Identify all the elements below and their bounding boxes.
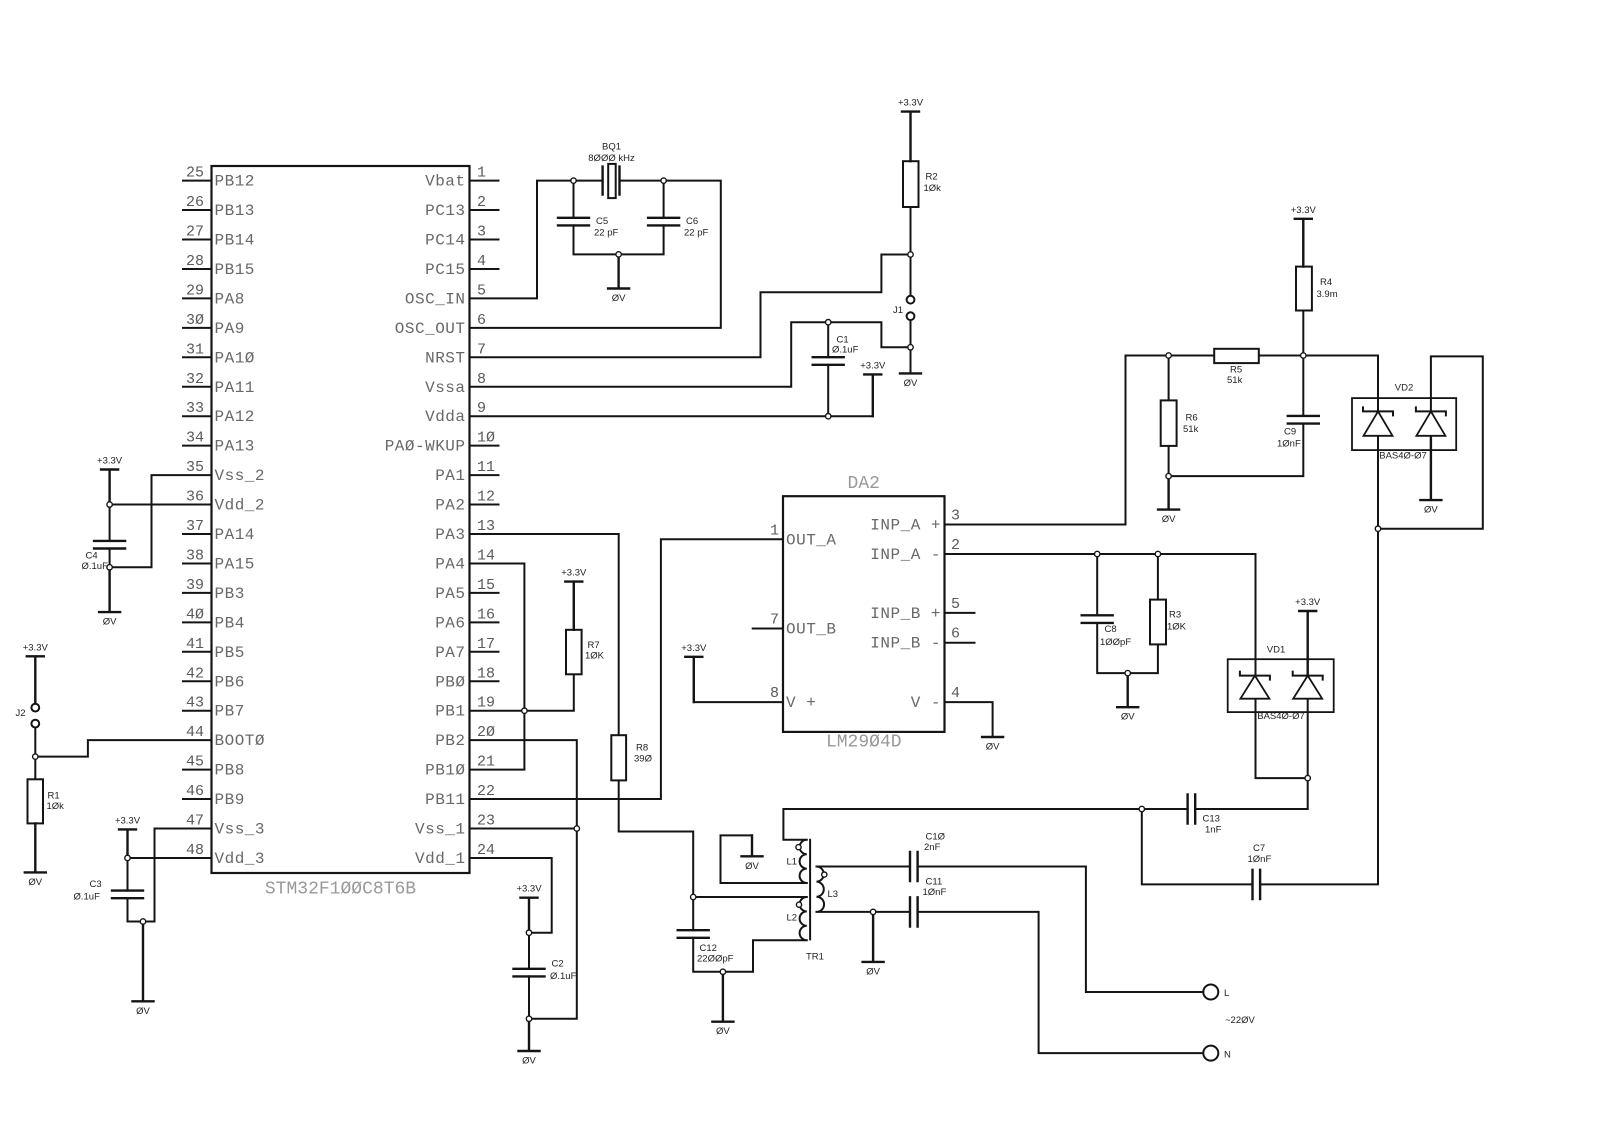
svg-text:INP_B -: INP_B - (870, 635, 941, 653)
svg-text:PA7: PA7 (435, 644, 465, 662)
svg-text:Vss_2: Vss_2 (215, 467, 266, 485)
svg-text:R6: R6 (1186, 413, 1198, 424)
svg-text:43: 43 (186, 695, 204, 712)
svg-text:PB9: PB9 (215, 791, 245, 809)
svg-text:INP_B +: INP_B + (870, 605, 941, 623)
svg-text:C6: C6 (686, 216, 698, 227)
svg-text:29: 29 (186, 282, 204, 299)
svg-text:INP_A -: INP_A - (870, 546, 941, 564)
svg-text:27: 27 (186, 224, 204, 241)
svg-text:22: 22 (477, 783, 495, 800)
svg-text:Ø.1uF: Ø.1uF (74, 892, 101, 903)
svg-text:BAS4Ø-Ø7: BAS4Ø-Ø7 (1379, 451, 1427, 462)
svg-text:2nF: 2nF (924, 842, 941, 853)
svg-text:ØV: ØV (103, 617, 117, 628)
svg-text:Vdd_3: Vdd_3 (215, 850, 266, 868)
svg-text:37: 37 (186, 518, 204, 535)
svg-text:C11: C11 (926, 877, 943, 888)
svg-text:1ØnF: 1ØnF (923, 887, 947, 898)
svg-text:PA1Ø: PA1Ø (215, 349, 255, 367)
svg-text:L2: L2 (787, 913, 798, 924)
svg-text:41: 41 (186, 636, 204, 653)
svg-text:2Ø: 2Ø (477, 724, 495, 741)
svg-text:19: 19 (477, 695, 495, 712)
svg-text:3: 3 (477, 224, 486, 241)
svg-text:LM29Ø4D: LM29Ø4D (826, 733, 902, 753)
svg-text:PB4: PB4 (215, 614, 245, 632)
svg-text:11: 11 (477, 459, 495, 476)
svg-text:OSC_IN: OSC_IN (405, 290, 466, 308)
svg-text:PB8: PB8 (215, 762, 245, 780)
svg-text:22ØØpF: 22ØØpF (697, 954, 734, 965)
svg-text:PB12: PB12 (215, 173, 255, 191)
svg-text:8ØØØ kHz: 8ØØØ kHz (588, 153, 635, 164)
svg-text:12: 12 (477, 489, 495, 506)
svg-text:INP_A +: INP_A + (870, 517, 941, 535)
svg-text:PB5: PB5 (215, 644, 245, 662)
svg-text:1ØnF: 1ØnF (1277, 439, 1301, 450)
svg-text:+3.3V: +3.3V (1295, 597, 1321, 608)
svg-text:28: 28 (186, 253, 204, 270)
svg-text:ØV: ØV (904, 378, 918, 389)
svg-text:ØV: ØV (1121, 712, 1135, 723)
svg-text:1: 1 (770, 522, 779, 539)
svg-text:39: 39 (186, 577, 204, 594)
svg-text:+3.3V: +3.3V (860, 360, 886, 371)
svg-text:+3.3V: +3.3V (681, 643, 707, 654)
svg-text:R3: R3 (1169, 610, 1181, 621)
svg-text:BQ1: BQ1 (602, 142, 621, 153)
svg-text:PBØ: PBØ (435, 673, 465, 691)
svg-text:22 pF: 22 pF (684, 228, 708, 239)
svg-text:25: 25 (186, 165, 204, 182)
svg-text:PB6: PB6 (215, 673, 245, 691)
svg-text:C12: C12 (700, 943, 717, 954)
svg-text:NRST: NRST (425, 349, 465, 367)
svg-text:5: 5 (951, 596, 960, 613)
svg-text:PA9: PA9 (215, 320, 245, 338)
svg-text:ØV: ØV (986, 742, 1000, 753)
svg-text:+3.3V: +3.3V (561, 568, 587, 579)
svg-text:VD1: VD1 (1267, 645, 1285, 656)
svg-text:4: 4 (477, 253, 486, 270)
svg-text:DA2: DA2 (848, 474, 880, 494)
svg-text:C1Ø: C1Ø (926, 832, 946, 843)
svg-text:PA4: PA4 (435, 555, 465, 573)
svg-text:4Ø: 4Ø (186, 606, 204, 623)
svg-text:18: 18 (477, 665, 495, 682)
svg-text:C2: C2 (552, 959, 564, 970)
svg-text:Ø.1uF: Ø.1uF (82, 561, 109, 572)
svg-text:1ØnF: 1ØnF (1248, 854, 1272, 865)
svg-text:8: 8 (477, 371, 486, 388)
svg-text:+3.3V: +3.3V (115, 815, 141, 826)
svg-text:Vbat: Vbat (425, 173, 465, 191)
svg-text:PC14: PC14 (425, 232, 465, 250)
svg-text:14: 14 (477, 547, 495, 564)
svg-text:+3.3V: +3.3V (898, 98, 924, 109)
svg-text:1nF: 1nF (1205, 825, 1222, 836)
svg-text:15: 15 (477, 577, 495, 594)
svg-text:13: 13 (477, 518, 495, 535)
svg-text:1Øk: 1Øk (47, 801, 65, 812)
svg-text:C13: C13 (1203, 814, 1220, 825)
svg-text:35: 35 (186, 459, 204, 476)
svg-text:51k: 51k (1227, 375, 1243, 386)
svg-text:TR1: TR1 (806, 952, 824, 963)
svg-text:R4: R4 (1320, 277, 1332, 288)
svg-text:PA14: PA14 (215, 526, 255, 544)
svg-text:C4: C4 (86, 551, 98, 562)
svg-text:1Ø: 1Ø (477, 430, 495, 447)
svg-text:J2: J2 (15, 708, 25, 719)
svg-text:3Ø: 3Ø (186, 312, 204, 329)
svg-text:PC13: PC13 (425, 202, 465, 220)
svg-text:PB15: PB15 (215, 261, 255, 279)
svg-text:R8: R8 (636, 743, 648, 754)
svg-text:Ø.1uF: Ø.1uF (832, 345, 859, 356)
svg-text:32: 32 (186, 371, 204, 388)
svg-text:R1: R1 (48, 791, 60, 802)
svg-text:PA2: PA2 (435, 497, 465, 515)
svg-text:16: 16 (477, 606, 495, 623)
svg-text:J1: J1 (893, 305, 903, 316)
svg-text:Vssa: Vssa (425, 379, 465, 397)
svg-text:+3.3V: +3.3V (23, 642, 49, 653)
svg-text:PB2: PB2 (435, 732, 465, 750)
svg-text:+3.3V: +3.3V (97, 456, 123, 467)
svg-text:ØV: ØV (28, 877, 42, 888)
svg-text:ØV: ØV (716, 1026, 730, 1037)
svg-text:C9: C9 (1284, 427, 1296, 438)
svg-text:36: 36 (186, 489, 204, 506)
svg-text:R7: R7 (588, 640, 600, 651)
svg-text:Vdd_2: Vdd_2 (215, 497, 266, 515)
svg-text:51k: 51k (1183, 424, 1199, 435)
svg-text:26: 26 (186, 194, 204, 211)
svg-text:BOOTØ: BOOTØ (215, 732, 266, 750)
svg-text:ØV: ØV (522, 1056, 536, 1067)
svg-text:1ØK: 1ØK (1167, 622, 1187, 633)
svg-text:46: 46 (186, 783, 204, 800)
svg-text:PB7: PB7 (215, 703, 245, 721)
svg-text:PA15: PA15 (215, 555, 255, 573)
svg-text:PAØ-WKUP: PAØ-WKUP (385, 438, 466, 456)
svg-text:39Ø: 39Ø (634, 754, 653, 765)
svg-text:STM32F1ØØC8T6B: STM32F1ØØC8T6B (265, 880, 416, 900)
svg-text:PB14: PB14 (215, 232, 255, 250)
svg-text:L1: L1 (787, 857, 798, 868)
svg-text:~22ØV: ~22ØV (1225, 1015, 1256, 1026)
svg-text:ØV: ØV (1162, 514, 1176, 525)
svg-text:C3: C3 (90, 879, 102, 890)
svg-text:Ø.1uF: Ø.1uF (550, 971, 577, 982)
svg-text:BAS4Ø-Ø7: BAS4Ø-Ø7 (1257, 711, 1305, 722)
svg-text:R5: R5 (1230, 365, 1242, 376)
svg-text:PB1: PB1 (435, 703, 465, 721)
svg-text:6: 6 (477, 312, 486, 329)
svg-text:VD2: VD2 (1395, 383, 1413, 394)
svg-text:ØV: ØV (866, 966, 880, 977)
svg-text:+3.3V: +3.3V (1291, 205, 1317, 216)
svg-text:PA1: PA1 (435, 467, 465, 485)
svg-text:47: 47 (186, 813, 204, 830)
svg-text:1ØØpF: 1ØØpF (1100, 637, 1131, 648)
svg-text:1ØK: 1ØK (585, 651, 605, 662)
svg-text:C5: C5 (596, 216, 608, 227)
svg-text:ØV: ØV (612, 293, 626, 304)
svg-text:7: 7 (477, 341, 486, 358)
svg-text:PB13: PB13 (215, 202, 255, 220)
svg-text:38: 38 (186, 547, 204, 564)
svg-text:PC15: PC15 (425, 261, 465, 279)
svg-text:V +: V + (786, 694, 816, 712)
svg-text:2: 2 (477, 194, 486, 211)
svg-text:Vss_1: Vss_1 (415, 821, 466, 839)
svg-text:PA13: PA13 (215, 438, 255, 456)
svg-text:3: 3 (951, 508, 960, 525)
svg-text:OUT_B: OUT_B (786, 621, 837, 639)
svg-text:33: 33 (186, 400, 204, 417)
svg-text:PA12: PA12 (215, 408, 255, 426)
svg-text:2: 2 (951, 537, 960, 554)
svg-text:ØV: ØV (745, 861, 759, 872)
svg-text:N: N (1224, 1050, 1231, 1061)
svg-text:6: 6 (951, 626, 960, 643)
svg-text:24: 24 (477, 842, 495, 859)
svg-text:PB1Ø: PB1Ø (425, 762, 465, 780)
svg-text:17: 17 (477, 636, 495, 653)
svg-text:PA11: PA11 (215, 379, 255, 397)
svg-text:R2: R2 (926, 172, 938, 183)
svg-text:PB11: PB11 (425, 791, 465, 809)
svg-text:V -: V - (911, 694, 941, 712)
svg-text:OUT_A: OUT_A (786, 532, 837, 550)
svg-text:PA8: PA8 (215, 290, 245, 308)
svg-text:1Øk: 1Øk (924, 183, 942, 194)
svg-text:ØV: ØV (1424, 505, 1438, 516)
svg-text:C7: C7 (1253, 843, 1265, 854)
svg-text:ØV: ØV (136, 1006, 150, 1017)
svg-text:Vss_3: Vss_3 (215, 821, 266, 839)
svg-text:+3.3V: +3.3V (516, 884, 542, 895)
svg-text:OSC_OUT: OSC_OUT (395, 320, 466, 338)
svg-text:42: 42 (186, 665, 204, 682)
svg-text:9: 9 (477, 400, 486, 417)
svg-text:1: 1 (477, 165, 486, 182)
svg-text:34: 34 (186, 430, 204, 447)
svg-text:L3: L3 (828, 889, 839, 900)
svg-text:C8: C8 (1105, 624, 1117, 635)
svg-text:Vdd_1: Vdd_1 (415, 850, 466, 868)
svg-text:23: 23 (477, 813, 495, 830)
svg-text:31: 31 (186, 341, 204, 358)
svg-text:Vdda: Vdda (425, 408, 465, 426)
svg-text:PA6: PA6 (435, 614, 465, 632)
svg-text:5: 5 (477, 282, 486, 299)
svg-text:8: 8 (770, 685, 779, 702)
svg-text:PA3: PA3 (435, 526, 465, 544)
svg-text:PA5: PA5 (435, 585, 465, 603)
svg-text:4: 4 (951, 685, 960, 702)
svg-text:45: 45 (186, 754, 204, 771)
svg-text:7: 7 (770, 612, 779, 629)
svg-text:21: 21 (477, 754, 495, 771)
svg-text:PB3: PB3 (215, 585, 245, 603)
svg-text:22 pF: 22 pF (594, 228, 618, 239)
svg-text:44: 44 (186, 724, 204, 741)
svg-text:L: L (1224, 988, 1229, 999)
svg-text:3.9m: 3.9m (1317, 289, 1338, 300)
svg-text:48: 48 (186, 842, 204, 859)
